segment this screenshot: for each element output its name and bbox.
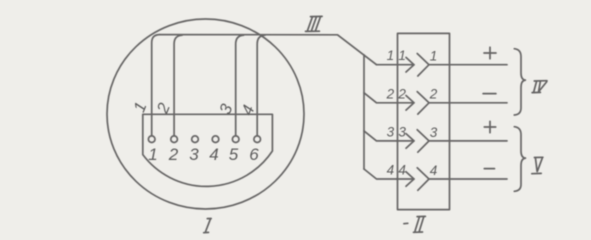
- minus label output 2: [483, 93, 496, 95]
- pin 1: [148, 136, 155, 143]
- svg-text:2: 2: [386, 86, 395, 101]
- contact 3 socket: [417, 130, 429, 153]
- label III underline: [306, 30, 320, 32]
- brace IV: [514, 49, 525, 115]
- svg-text:3: 3: [387, 124, 395, 139]
- plus label output 3: [484, 121, 495, 132]
- contact 1 wire in: [377, 64, 415, 66]
- label IV underline: [532, 91, 540, 93]
- svg-text:3: 3: [430, 125, 438, 140]
- cable bundle III run: [160, 35, 377, 65]
- contact 2 output wire: [429, 102, 507, 104]
- minus label output 4: [484, 168, 494, 170]
- connector I body (D-shaped insert): [143, 114, 273, 186]
- pin 4: [212, 136, 219, 143]
- connector I outer circle: [107, 19, 304, 209]
- contact 4 pin arrowhead: [406, 172, 414, 187]
- wire 1 from pin 1: [152, 35, 160, 136]
- label II: [415, 216, 425, 231]
- contact 4 socket: [417, 168, 429, 191]
- svg-text:1: 1: [430, 49, 438, 64]
- contact 2 wire in: [397, 102, 415, 104]
- branch wire to contact 3: [364, 131, 397, 141]
- svg-text:3: 3: [398, 124, 406, 139]
- svg-text:1: 1: [387, 48, 395, 63]
- label V: [534, 157, 543, 171]
- pin 6: [254, 136, 261, 143]
- contact 2 socket: [417, 92, 429, 115]
- label II underline: [414, 231, 423, 233]
- contact 3 pin arrowhead: [406, 134, 414, 149]
- svg-text:6: 6: [249, 145, 259, 164]
- plus label output 1: [484, 47, 496, 59]
- svg-text:2: 2: [429, 87, 438, 102]
- svg-text:2: 2: [168, 145, 179, 164]
- contact 1 socket: [417, 54, 429, 77]
- label II dash: [404, 222, 408, 224]
- cable bundle III vertical: [363, 55, 365, 169]
- svg-text:2: 2: [397, 86, 406, 101]
- svg-text:4: 4: [398, 163, 406, 178]
- svg-text:4: 4: [209, 145, 218, 164]
- wire 4 from pin 6: [257, 35, 265, 136]
- svg-text:3: 3: [189, 145, 199, 164]
- svg-text:5: 5: [229, 145, 239, 164]
- label V underline: [532, 172, 541, 174]
- label IV: [534, 81, 547, 92]
- connector II rectangle: [398, 33, 450, 209]
- contact 1 pin arrowhead: [406, 57, 414, 72]
- svg-text:1: 1: [398, 48, 406, 63]
- svg-text:4: 4: [387, 163, 395, 178]
- pin 3: [192, 136, 199, 143]
- contact 4 wire in: [397, 178, 415, 180]
- label I underline: [204, 231, 209, 233]
- branch wire to contact 4: [364, 169, 397, 179]
- svg-text:4: 4: [430, 163, 438, 178]
- wire 2 from pin 2: [174, 35, 182, 136]
- wire 3 from pin 5: [236, 35, 244, 136]
- contact 3 wire in: [397, 140, 415, 142]
- pin 5: [232, 136, 239, 143]
- brace V: [514, 127, 525, 192]
- pin 2: [171, 136, 178, 143]
- contact 2 pin arrowhead: [406, 96, 414, 111]
- label III: [308, 16, 323, 30]
- branch wire to contact 2: [364, 93, 397, 103]
- contact 3 output wire: [429, 140, 507, 142]
- svg-text:1: 1: [148, 145, 157, 164]
- contact 4 output wire: [429, 178, 507, 180]
- label I: [206, 219, 212, 232]
- contact 1 output wire: [429, 64, 507, 66]
